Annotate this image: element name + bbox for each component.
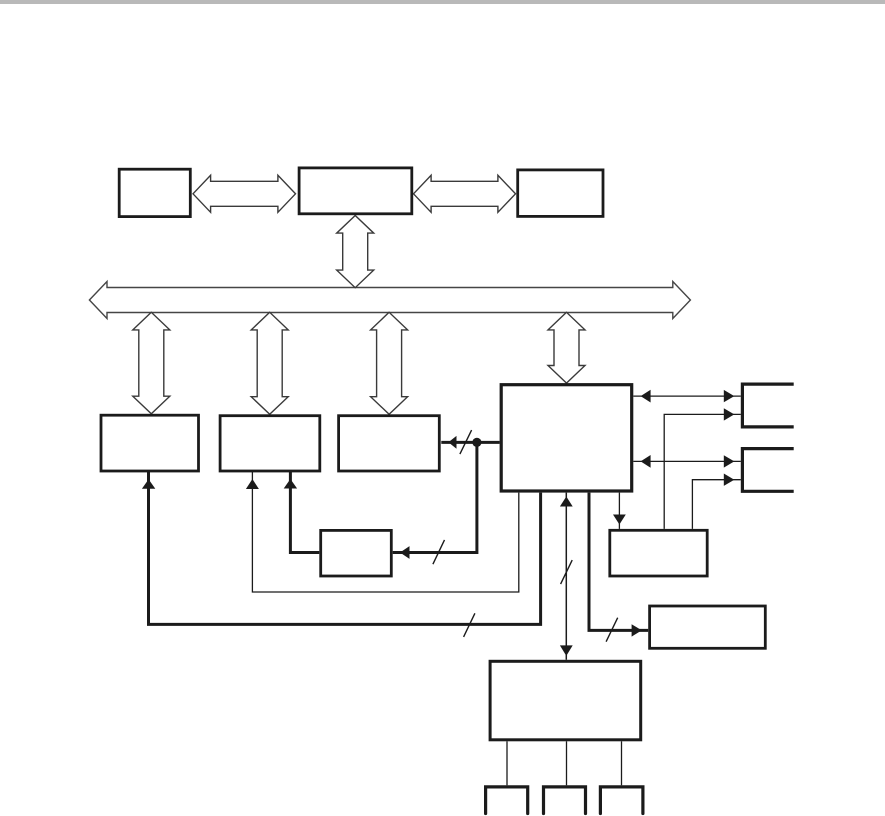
arrowhead into K (right) (632, 624, 642, 636)
box L2 (open bottom) (544, 787, 586, 814)
box L1 (open bottom) (486, 787, 528, 814)
box L3 (open bottom) (600, 787, 643, 814)
wire: thin I-top up and right into R1 (664, 414, 741, 529)
node junction dot (472, 438, 481, 447)
bus-width slash near F junction (460, 430, 472, 454)
box A (119, 169, 190, 216)
wire: bus (open double-headed arrow) (89, 282, 690, 319)
bus-width slash on H line (433, 540, 445, 564)
wire: thin G-right to R1 (bidirectional) (633, 395, 741, 397)
arrowhead down into I top (613, 515, 626, 525)
arrowhead into F (left) (448, 436, 456, 449)
box H (321, 530, 392, 576)
box R1 (open right) (742, 384, 793, 427)
wire: thin G-bottom down into I-top (618, 493, 620, 529)
box J (490, 661, 641, 740)
wire: open arrow A-B (193, 175, 296, 212)
box E (220, 416, 320, 471)
arrowhead into R1 on line T1 (right) (724, 390, 735, 402)
wire: open arrow bus to box E (251, 312, 288, 414)
wire: thick line G-left to F-right with branch (441, 441, 499, 444)
arrowhead into R2 on line T4 (right) (724, 474, 735, 486)
wire: thin double-arrow G-bottom to J-top (565, 493, 567, 660)
wire: thick branch down from junction to H line (393, 442, 477, 552)
wire: thin G-right to R2 (bidirectional) (633, 460, 741, 462)
arrowhead into D bottom (up) (142, 479, 155, 488)
bus-width slash on D feedback (464, 613, 475, 637)
arrowhead up into G bottom (560, 497, 573, 507)
wire: thick line G-bottom to box K (589, 493, 648, 631)
box I (610, 530, 707, 576)
wire: open arrow bus to box G (548, 312, 585, 383)
arrowhead down into J top (560, 645, 573, 656)
box R2 (open right) (742, 449, 793, 492)
arrowhead into H (left) (400, 546, 410, 559)
bus-width slash on G-J line (561, 560, 573, 584)
wire: open arrow bus to box F (371, 312, 408, 414)
wire: thin J-bottom to L1 (506, 741, 508, 785)
wire: thick line H-left up to box E (290, 472, 319, 553)
wire: open arrow bus to box D (133, 312, 170, 414)
box F (339, 416, 440, 471)
box G (501, 385, 632, 491)
box C (518, 170, 603, 217)
wire: thin J-bottom to L3 (621, 741, 623, 785)
arrowhead into R2 on line T3 (right) (724, 455, 735, 467)
wire: thin I-top up and right into R2 (692, 480, 740, 529)
arrowhead into E bottom thin (up) (246, 479, 259, 489)
arrowhead toward G on line T1 (left) (641, 390, 651, 403)
box K (650, 606, 766, 648)
arrowhead toward G on line T3 (left) (641, 455, 651, 468)
box B (299, 168, 412, 214)
box D (101, 415, 199, 471)
arrowhead into R1 on line T2 (right) (724, 408, 735, 420)
bus-width slash on K line (606, 618, 618, 642)
wire: thin feedback G-bottom to box E (252, 472, 518, 593)
wire: thin J-bottom to L2 (566, 741, 568, 785)
arrowhead into E bottom thick (up) (284, 479, 297, 489)
top gray bar (0, 0, 885, 4)
wire: open arrow B to bus (337, 216, 374, 288)
wire: open arrow B-C (414, 175, 516, 212)
wire: thick feedback G-bottom to box D (149, 472, 541, 625)
